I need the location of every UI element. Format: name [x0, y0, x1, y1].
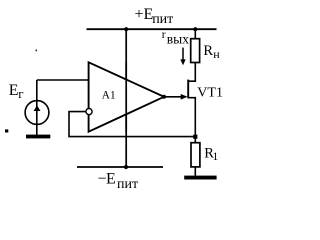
label R1: [204, 145, 218, 163]
inverting input bubble: [86, 109, 92, 115]
svg-text:E: E: [106, 171, 116, 188]
svg-text:н: н: [213, 47, 220, 61]
op-amp supply line over triangle: [125, 62, 127, 132]
transistor VT1 drain lead: [188, 62, 195, 81]
label -Eпит: [98, 171, 139, 192]
stray mark left edge: [5, 129, 8, 132]
gate arrowhead: [181, 94, 188, 100]
wire through source Eг: [36, 80, 38, 135]
wire Eг to op-amp noninverting input: [37, 79, 89, 81]
label Eг: [9, 82, 24, 101]
node +E rail (top supply wire): [87, 28, 217, 30]
wire +E rail to Rн: [194, 29, 196, 39]
wire op-amp supply vertical: [125, 29, 127, 167]
svg-text:R: R: [203, 43, 213, 59]
ground below R1: [184, 176, 216, 180]
transistor VT1 gate bar: [187, 80, 189, 99]
label Rн: [203, 43, 220, 61]
stray dot artifact upper left: [36, 50, 38, 52]
svg-text:r: r: [162, 29, 166, 41]
wire R1 to ground: [194, 167, 196, 176]
svg-text:+E: +E: [135, 6, 154, 23]
source Eг (circle): [25, 101, 49, 125]
junction on +E rail at Rн: [193, 27, 197, 31]
label rвых: [162, 29, 189, 47]
svg-text:А1: А1: [102, 89, 116, 101]
node -E rail (bottom supply wire): [77, 166, 163, 168]
label +Eпит: [135, 6, 174, 27]
svg-text:E: E: [9, 82, 19, 99]
svg-text:VT1: VT1: [197, 85, 223, 100]
arrow inside source Eг: [34, 105, 41, 111]
svg-text:1: 1: [213, 151, 219, 163]
op-amp A1: [89, 62, 164, 131]
ground below Eг: [26, 135, 50, 139]
junction on +E rail at supply line: [124, 27, 128, 31]
junction on -E rail: [124, 165, 128, 169]
wire feedback from inverting input to source of VT1: [69, 112, 195, 137]
resistor R1: [191, 143, 200, 167]
arrow rвых (down): [182, 48, 184, 61]
svg-text:пит: пит: [152, 12, 173, 27]
transistor VT1 source lead: [188, 98, 195, 143]
svg-text:вых: вых: [167, 31, 189, 46]
wire op-amp output to gate: [164, 96, 183, 98]
svg-text:г: г: [18, 86, 23, 101]
junction feedback / VT1 source node: [193, 135, 197, 139]
resistor Rн: [191, 39, 200, 63]
svg-text:пит: пит: [117, 177, 138, 192]
junction at op-amp output: [162, 95, 166, 99]
